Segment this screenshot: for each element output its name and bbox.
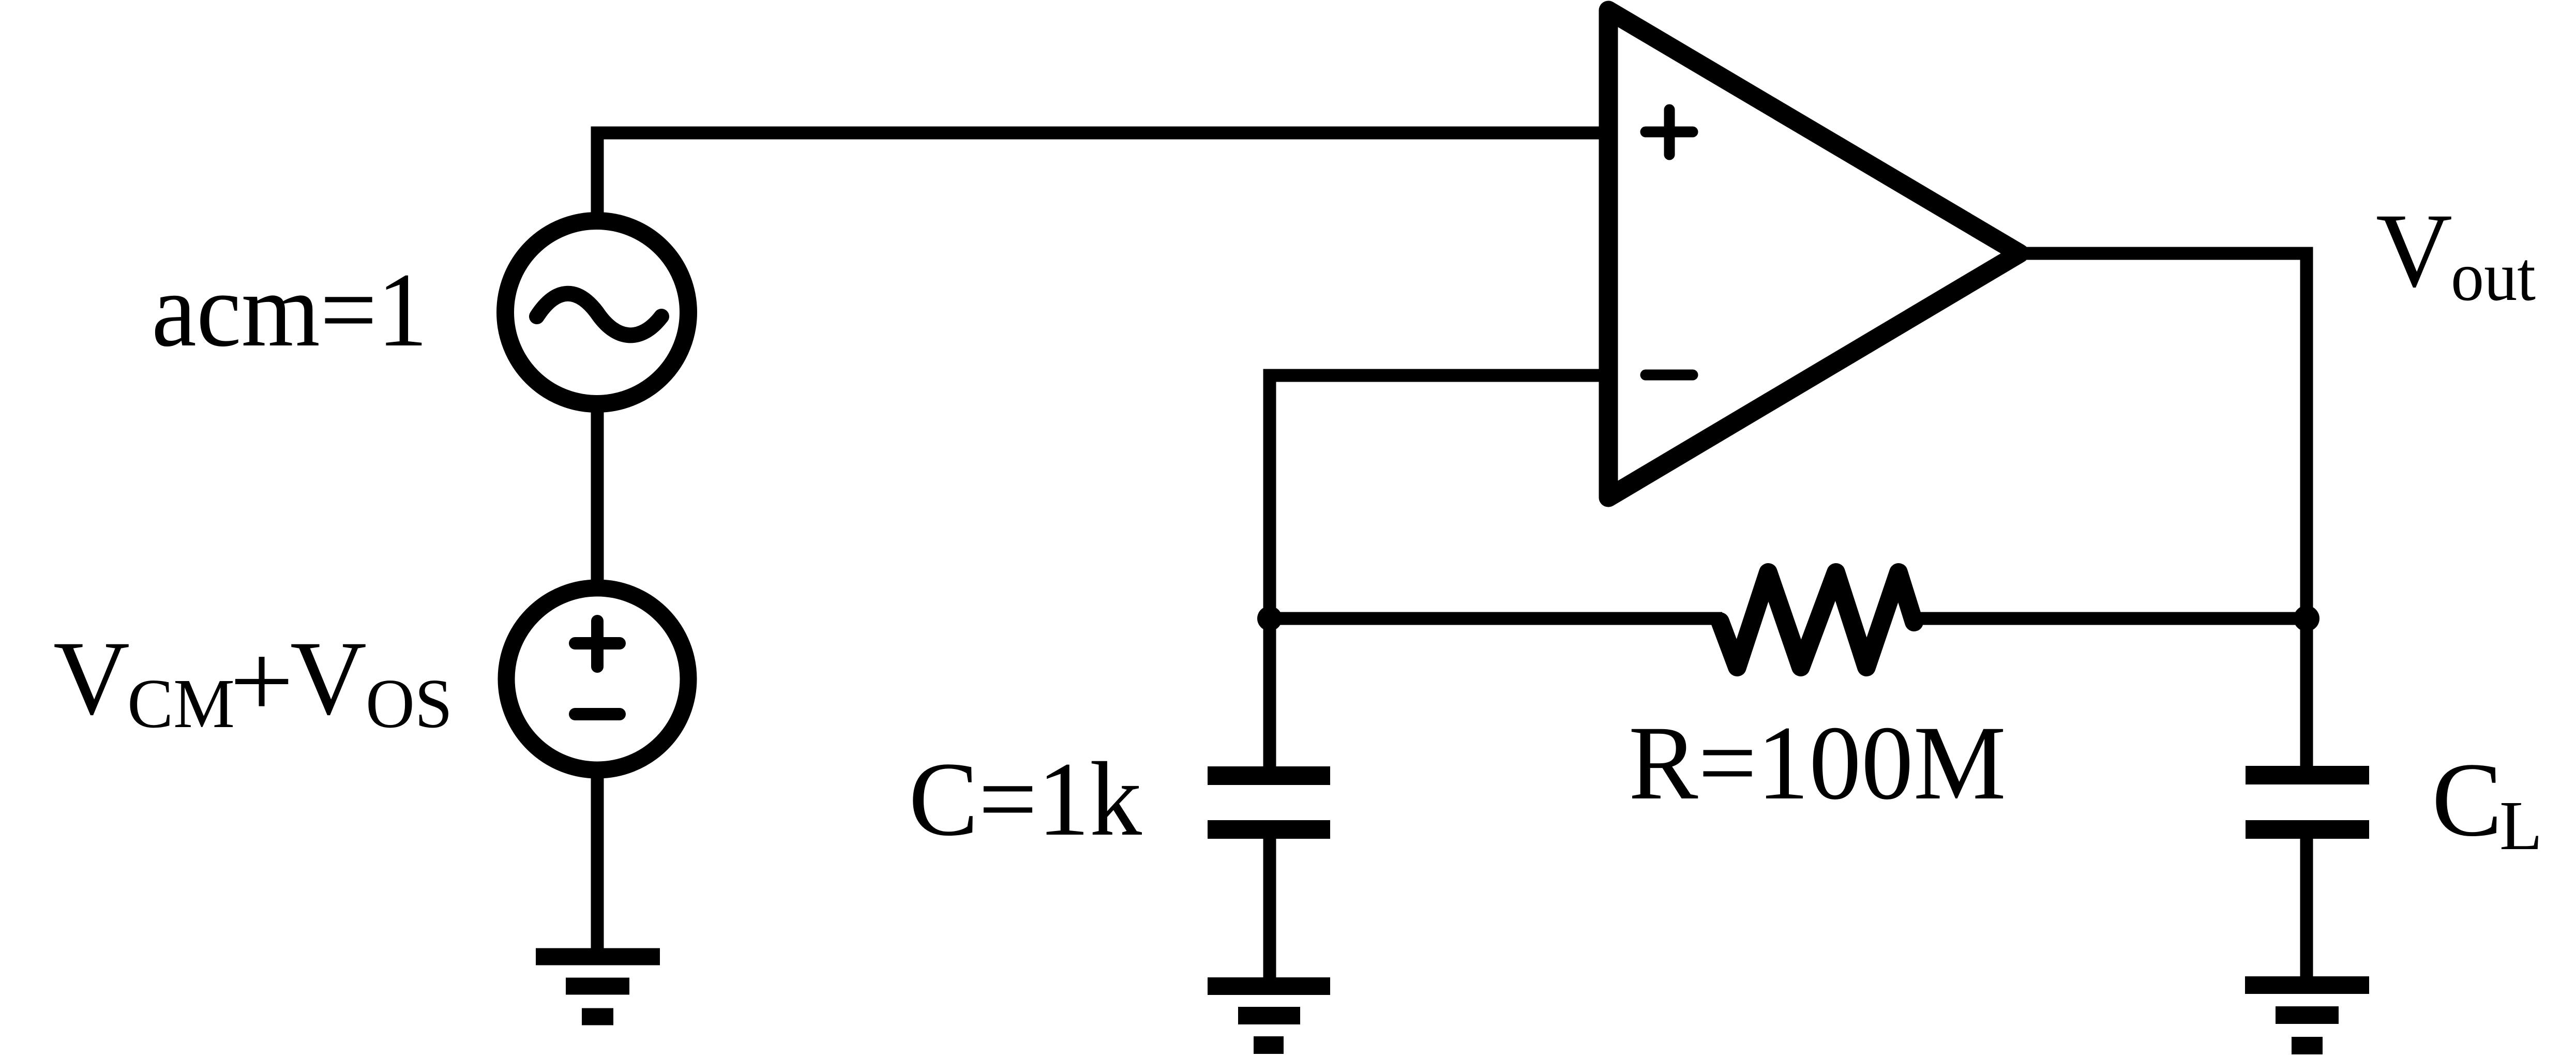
ground below DC source — [536, 957, 660, 1017]
svg-text:acm=1: acm=1 — [152, 251, 428, 369]
svg-text:V: V — [2376, 192, 2452, 309]
resistor R zigzag — [1720, 572, 1914, 667]
output wire from op-amp to Vout node and down to CL — [2020, 253, 2307, 767]
feedback wire right segment — [1912, 612, 2307, 625]
AC source V1 circle — [505, 221, 688, 404]
svg-text:OS: OS — [366, 665, 453, 743]
svg-text:out: out — [2451, 238, 2536, 315]
ground below capacitor C — [1208, 986, 1330, 1045]
svg-text:V: V — [290, 620, 367, 737]
capacitor C top plate — [1208, 766, 1330, 785]
DC source V2 circle — [506, 588, 688, 770]
label VCM+VOS — [53, 620, 453, 743]
DC source plus sign — [575, 621, 620, 667]
op-amp U1 triangle — [1608, 10, 2020, 497]
feedback wire left segment — [1270, 612, 1722, 625]
svg-text:L: L — [2499, 787, 2542, 865]
AC source sine symbol — [537, 294, 661, 336]
label Vout — [2376, 192, 2536, 315]
ground below capacitor CL — [2245, 985, 2369, 1046]
op-amp minus input wire — [1270, 375, 1608, 618]
svg-text:R=100M: R=100M — [1629, 704, 2006, 822]
wire from capacitor C to ground — [1263, 829, 1276, 986]
wire between AC source and DC source — [591, 403, 604, 590]
wire from AC source top to op-amp + input — [597, 133, 1608, 217]
capacitor C bottom plate — [1208, 820, 1330, 839]
wire from capacitor CL to ground — [2300, 829, 2313, 985]
node A junction dot — [1257, 606, 1282, 631]
capacitor CL bottom plate — [2246, 820, 2369, 839]
wire from DC source bottom to ground — [591, 771, 604, 957]
wire from node A down to capacitor C — [1263, 618, 1276, 767]
op-amp plus input marker — [1646, 110, 1693, 155]
svg-text:V: V — [53, 620, 130, 737]
op-amp minus input marker — [1646, 370, 1693, 381]
capacitor CL top plate — [2246, 766, 2369, 784]
svg-text:C: C — [2432, 741, 2503, 858]
node Vout junction dot — [2294, 606, 2319, 631]
svg-text:C=1k: C=1k — [909, 741, 1142, 858]
svg-text:CM: CM — [127, 665, 235, 743]
svg-text:+: + — [230, 623, 294, 740]
label CL — [2432, 741, 2542, 865]
DC source minus sign — [575, 708, 620, 720]
